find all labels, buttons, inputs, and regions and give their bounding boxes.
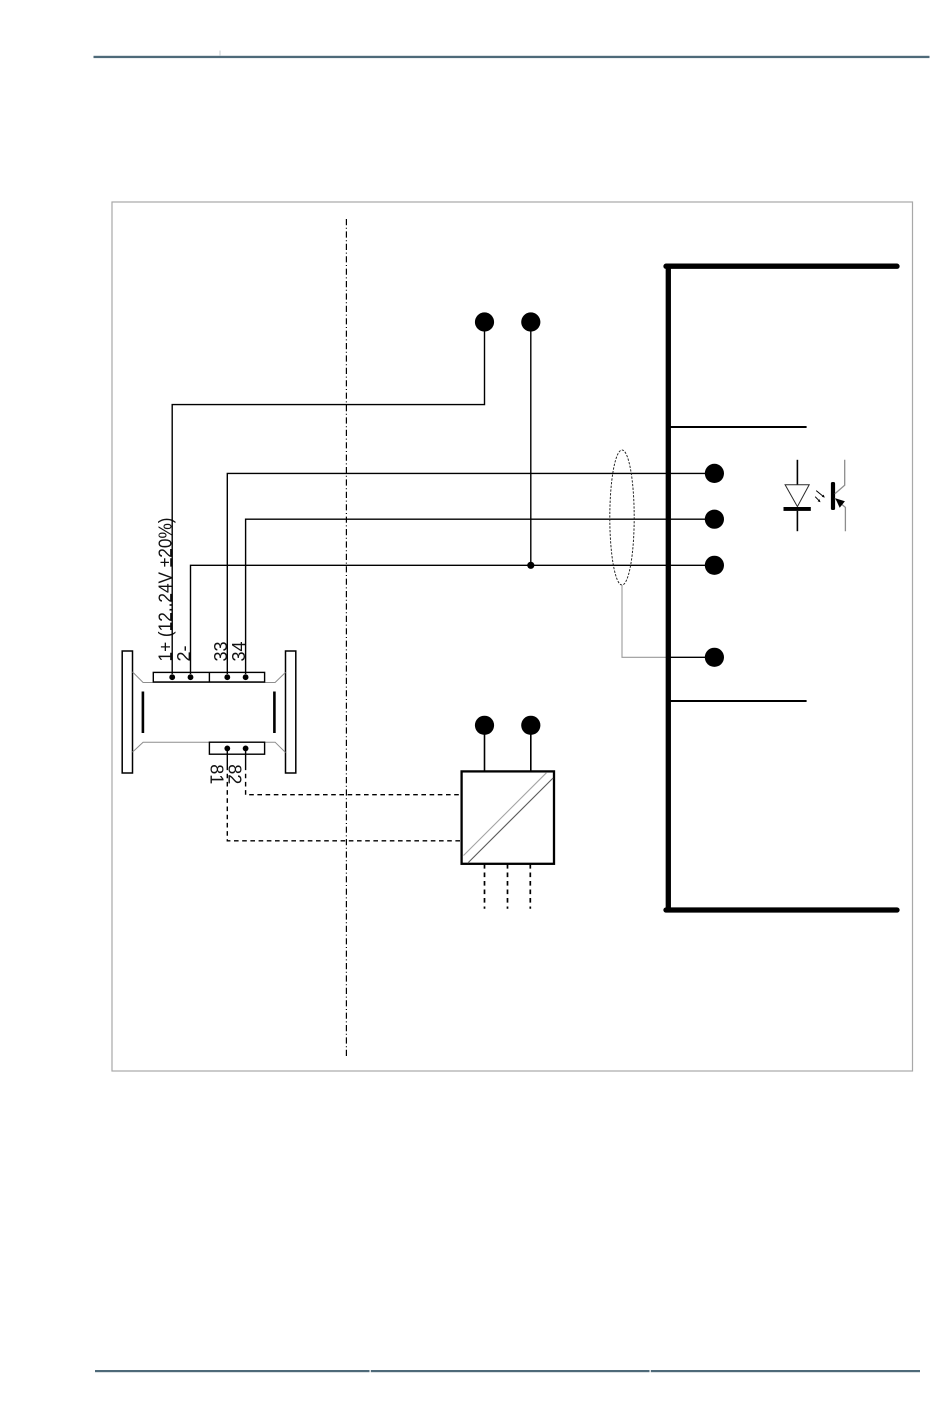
optocoupler LED triangle — [785, 485, 809, 507]
terminal pin 34 — [243, 674, 249, 680]
isolator terminal dot left — [475, 716, 494, 735]
input terminal dot 4 (screen) — [705, 648, 724, 667]
header rule — [94, 51, 930, 59]
sensor left flange — [122, 651, 132, 773]
svg-text:81: 81 — [207, 764, 227, 784]
terminal box top — [153, 672, 264, 682]
isolator terminal dot right — [521, 716, 540, 735]
electrode right — [273, 692, 276, 734]
sensor body outline — [133, 672, 286, 753]
junction L- on wire 2- — [527, 562, 534, 569]
terminal pin 33 — [224, 674, 230, 680]
isolator lead right — [530, 734, 532, 771]
wire screen to input dot — [666, 656, 714, 658]
phototransistor collector — [835, 460, 845, 494]
figure frame — [112, 202, 913, 1071]
isolator bottom lead 2 — [507, 864, 509, 909]
input terminal dot 1 — [705, 464, 724, 483]
isolator lead left — [484, 734, 486, 771]
wire terminal 2- to output — [191, 565, 715, 674]
power terminal dot L- — [521, 312, 540, 331]
optocoupler LED cathode bar — [784, 507, 811, 511]
Ex zone divider centerline — [345, 219, 347, 1057]
optocoupler LED anode lead — [796, 460, 798, 485]
isolator bottom lead 1 — [484, 864, 486, 909]
light ray 2 — [815, 497, 820, 503]
phototransistor emitter arrow — [835, 498, 845, 508]
terminal pin 81 — [224, 746, 230, 752]
isolating amplifier box — [462, 771, 554, 863]
optocoupler LED cathode lead — [796, 511, 798, 531]
terminal pin 2- — [188, 674, 194, 680]
cable screen ellipse — [610, 450, 634, 585]
wire L+ supply to terminal 1+ — [172, 332, 484, 675]
wire L- supply drop — [530, 332, 532, 566]
electrode left — [142, 692, 145, 734]
light ray 1 — [816, 491, 825, 498]
sensor right flange — [286, 651, 296, 773]
wire terminal 82 solid stub — [245, 751, 247, 766]
terminal box bottom — [209, 742, 264, 754]
input section partition bottom — [670, 700, 807, 702]
input terminal dot 2 — [705, 510, 724, 529]
phototransistor emitter — [835, 499, 846, 532]
isolation diagonal light — [464, 773, 547, 856]
footer rule — [95, 1370, 920, 1372]
terminal pin 82 — [243, 746, 249, 752]
isolation diagonal dark — [468, 778, 553, 863]
input terminal dot 3 — [705, 556, 724, 575]
wire terminal 81 solid stub — [226, 751, 228, 766]
screen drain wire — [622, 585, 668, 657]
terminal pin 1+ — [169, 674, 175, 680]
wire terminal 82 dashed — [246, 766, 462, 795]
wire terminal 33 to output — [227, 473, 714, 674]
isolator bottom lead 3 — [529, 864, 531, 909]
wire terminal 34 to output — [246, 519, 714, 674]
power terminal dot L+ — [475, 312, 494, 331]
amplifier housing wall — [666, 264, 897, 910]
phototransistor base bar — [831, 482, 835, 510]
wire terminal 81 dashed — [227, 766, 461, 841]
input section partition top — [670, 426, 807, 428]
